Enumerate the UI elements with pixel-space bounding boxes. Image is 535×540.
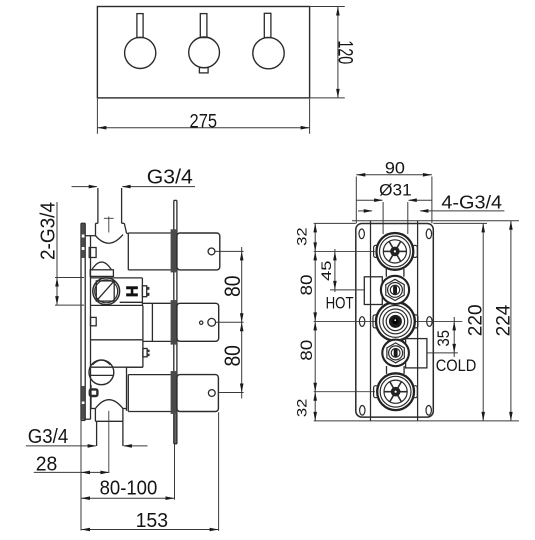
svg-text:Ø31: Ø31 xyxy=(379,181,412,200)
svg-text:G3/4: G3/4 xyxy=(28,426,68,448)
svg-text:35: 35 xyxy=(434,330,453,347)
svg-text:45: 45 xyxy=(319,261,334,281)
svg-text:220: 220 xyxy=(466,304,487,336)
svg-text:32: 32 xyxy=(294,227,310,246)
svg-text:80: 80 xyxy=(220,345,245,367)
svg-text:153: 153 xyxy=(136,509,169,532)
svg-text:224: 224 xyxy=(494,304,515,336)
svg-text:4-G3/4: 4-G3/4 xyxy=(441,192,502,213)
svg-text:H: H xyxy=(123,286,140,298)
svg-text:275: 275 xyxy=(190,110,218,132)
svg-text:G3/4: G3/4 xyxy=(147,166,193,188)
svg-text:COLD: COLD xyxy=(436,357,477,375)
svg-text:2-G3/4: 2-G3/4 xyxy=(38,202,60,260)
svg-text:80: 80 xyxy=(298,340,316,361)
svg-text:32: 32 xyxy=(294,398,310,417)
svg-text:80: 80 xyxy=(298,275,316,296)
svg-text:HOT: HOT xyxy=(326,294,354,312)
svg-text:120: 120 xyxy=(333,40,356,64)
svg-text:80: 80 xyxy=(220,275,245,297)
svg-text:80-100: 80-100 xyxy=(100,476,158,499)
